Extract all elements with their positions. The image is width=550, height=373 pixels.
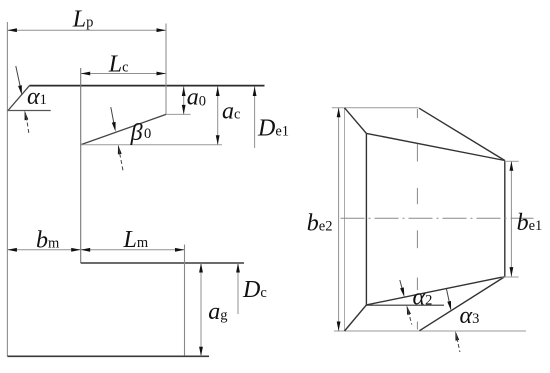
wire extension line y=144.7 [81,144,222,146]
wire chamfer edge (alpha1) [8,86,30,111]
dimension Lm line [81,249,185,251]
dimension Lp line [7,29,166,31]
wire back edge B-C [366,133,504,160]
dimension ac line [217,87,219,145]
dimension be1 extension bottom [501,276,518,278]
wire chamfer base horizontal line [7,110,50,112]
dimension be1 line [510,161,512,276]
wire extension line y=114.4 [166,113,191,115]
dimension bm line [7,249,80,251]
wire main vertical profile edge x=80.7 [80,68,82,263]
wire back-left edge B-E [365,133,367,305]
wire lower right vertical edge x=184.5 [184,245,186,357]
wire right extension vertical x=166 [165,24,167,115]
wire right-view bottom reference line [334,330,526,332]
centerline horizontal dash-dot [341,217,534,219]
angle leader beta0 [111,107,115,127]
wire beta0 taper slant [81,114,166,144]
wire left vertical profile edge [6,22,8,356]
wire front-left edge A-F [344,108,346,331]
angle leader alpha2 [400,280,403,290]
wire edge E-F [345,305,367,331]
angle leader alpha1 [16,66,22,92]
wire right edge C-D [504,161,506,277]
wire alpha3 slant line [420,277,505,331]
wire bottom back edge E-D [366,277,504,305]
dimension Dc line [237,263,239,314]
dimension Lc line [81,73,166,75]
wire step horizontal line y=263 [81,262,244,264]
wire bottom profile line [7,355,209,357]
angle leader alpha3 [447,289,450,303]
dimension ag line [200,263,202,356]
dimension be2 line [338,108,340,331]
wire right-view top reference line [332,107,419,109]
wire alpha2 horizontal reference from E [366,304,444,306]
dimension a0 line [183,87,185,115]
centerline vertical dashed [416,109,418,118]
dimension De1 line [254,87,256,149]
wire edge A-B [345,108,367,134]
wire top chamfer slant to C [419,108,505,160]
dimension be1 extension top [505,160,519,162]
wire top profile line [30,85,265,87]
